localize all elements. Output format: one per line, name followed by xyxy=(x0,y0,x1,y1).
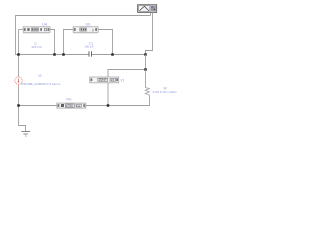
svg-text:LA: LA xyxy=(77,104,81,108)
wire: mid bus right segment xyxy=(92,54,146,56)
node dot: node B scope/resistor xyxy=(144,53,147,56)
component box V1 xyxy=(90,77,119,83)
wire: U1 right pin drop xyxy=(50,30,55,55)
wire: left vertical bus to source top xyxy=(18,30,20,77)
svg-text:23: 23 xyxy=(111,78,115,82)
current source IS1 xyxy=(15,77,22,87)
wire: V1 bottom stub xyxy=(107,83,109,106)
wire: scope pin A stub xyxy=(150,12,152,15)
wire: node B tee to V1 top xyxy=(108,55,146,78)
node dot: resistor branch / V1 tee xyxy=(144,68,147,71)
svg-text:0.5/5.6 Ohm 4GHz: 0.5/5.6 Ohm 4GHz xyxy=(153,90,178,94)
svg-text:Rm: Rm xyxy=(67,97,72,101)
svg-text:20HF: 20HF xyxy=(99,78,107,82)
wire: mid bus left segment xyxy=(19,54,90,56)
svg-text:IS: IS xyxy=(39,74,42,78)
svg-text:UA: UA xyxy=(42,23,48,27)
node dot: U2 left drop xyxy=(62,53,65,56)
wire: U1 left pin xyxy=(19,29,24,31)
resistor R diagonal zigzag xyxy=(145,88,149,97)
component box U2 xyxy=(73,27,98,33)
svg-text:#750: #750 xyxy=(66,104,73,108)
wire: top loop with left drop to bus xyxy=(16,16,151,55)
wire: bottom bus left segment xyxy=(19,105,57,107)
component box U1 xyxy=(23,27,50,33)
capacitor C1 xyxy=(89,51,92,56)
wire: resistor bottom to bus corner xyxy=(86,96,150,105)
component box R1 bottom xyxy=(57,103,86,108)
node dot: bottom-left tee xyxy=(17,104,20,107)
svg-text:Ub: Ub xyxy=(86,23,91,27)
oscilloscope XSC1 xyxy=(138,5,157,13)
svg-text:425 mV: 425 mV xyxy=(31,45,41,49)
wire: scope pin B down to node B xyxy=(146,12,153,54)
svg-text:V1: V1 xyxy=(120,78,124,82)
node dot: bus left end xyxy=(17,53,20,56)
node dot: V1 bottom tee xyxy=(107,104,110,107)
svg-text:IPROBE_AGBKM=2.9 kArms: IPROBE_AGBKM=2.9 kArms xyxy=(21,82,61,86)
wire: U2 left pin drop xyxy=(64,30,74,55)
wire: node B branch down to resistor xyxy=(145,70,147,88)
svg-text:100 pF: 100 pF xyxy=(84,45,94,49)
ground xyxy=(21,132,30,137)
wire: source bottom to ground corner xyxy=(19,87,26,132)
wire: U2 right pin drop xyxy=(98,30,112,55)
node dot: U1 right drop xyxy=(53,53,56,56)
node dot: U2 right drop xyxy=(111,53,114,56)
